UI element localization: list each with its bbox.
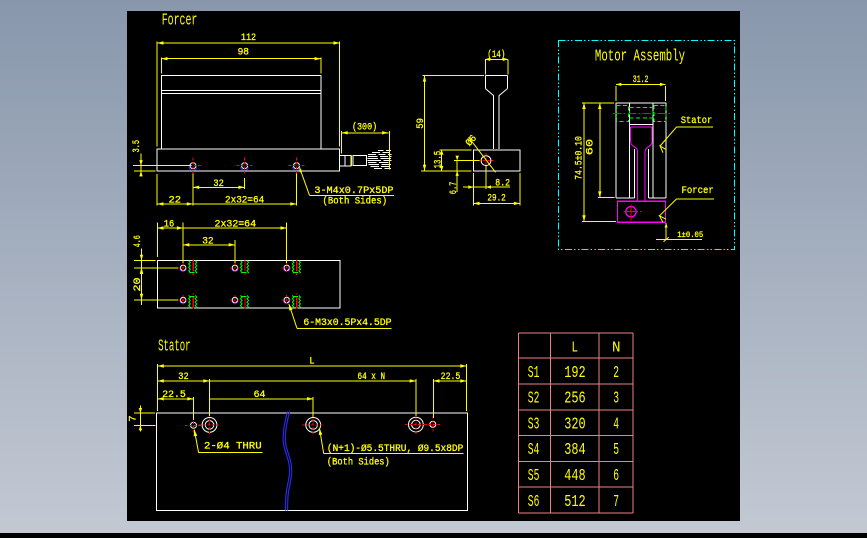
svg-text:29.2: 29.2 — [487, 193, 505, 204]
bottom view holes M3 grid — [180, 269, 186, 271]
svg-text:(N+1)-Ø5.5THRU, Ø9.5x8DP: (N+1)-Ø5.5THRU, Ø9.5x8DP — [327, 443, 463, 455]
svg-text:3.5: 3.5 — [132, 140, 143, 153]
stator plate outline — [157, 413, 468, 511]
svg-text:L: L — [572, 340, 579, 357]
break line blue — [283, 412, 290, 511]
svg-text:6-M3x0.5Px4.5DP: 6-M3x0.5Px4.5DP — [303, 318, 391, 329]
svg-text:112: 112 — [241, 33, 256, 44]
dim L — [158, 365, 467, 367]
motor assembly dashed border — [558, 40, 734, 249]
svg-text:32: 32 — [178, 372, 188, 383]
leader 6-M3x0.5Px4.5DP — [289, 304, 297, 329]
dim 2x32=64 bottom — [183, 227, 287, 229]
svg-text:S3: S3 — [528, 415, 540, 433]
hole counterbore 2 — [306, 418, 321, 433]
svg-text:6.7: 6.7 — [449, 182, 460, 195]
forcer base bar — [157, 149, 339, 171]
svg-text:64: 64 — [254, 390, 266, 401]
dim (300) cable length — [342, 132, 389, 134]
dim 4.6 — [141, 249, 143, 279]
forcer bottom view outline — [157, 260, 339, 308]
hole dia4 left — [191, 422, 197, 428]
svg-text:S5: S5 — [528, 467, 540, 485]
svg-text:74.5±0.10: 74.5±0.10 — [574, 136, 585, 180]
dim 32 — [193, 186, 245, 188]
svg-text:S4: S4 — [528, 441, 540, 459]
dim 8.2 — [463, 186, 510, 188]
svg-text:(14): (14) — [487, 49, 505, 61]
dim 13.5 — [441, 150, 443, 171]
dim 3.5 — [140, 154, 142, 177]
stator channel outline — [616, 103, 666, 198]
dim 22.5 right — [433, 380, 466, 382]
dim 60 — [599, 103, 601, 198]
svg-text:512: 512 — [564, 493, 585, 511]
hole counterbore 1 — [202, 418, 217, 433]
magnets green dashed — [617, 105, 629, 121]
dim 31.2 — [616, 83, 666, 85]
svg-text:L: L — [309, 357, 314, 368]
dim 64 — [210, 398, 314, 400]
dim 74.5+-0.10 — [583, 103, 585, 222]
svg-text:384: 384 — [564, 441, 585, 459]
size table — [518, 333, 520, 513]
svg-text:64 x N: 64 x N — [358, 372, 386, 383]
svg-text:Forcer: Forcer — [162, 12, 198, 31]
svg-text:Stator: Stator — [681, 116, 713, 127]
hole dia4 right — [430, 421, 436, 427]
dim 1+-0.05 gap — [665, 223, 667, 240]
dim 22.5 left — [158, 398, 194, 400]
svg-text:60: 60 — [586, 139, 597, 155]
svg-text:98: 98 — [238, 48, 249, 59]
svg-text:4: 4 — [613, 415, 619, 433]
svg-text:S6: S6 — [528, 493, 540, 511]
dim 7 — [139, 406, 141, 432]
dim 22 — [157, 203, 193, 205]
svg-text:2x32=64: 2x32=64 — [215, 219, 257, 230]
centerline red dash-dot — [613, 113, 670, 115]
hole counterbore 3 — [409, 417, 424, 432]
dim 29.2 — [473, 202, 520, 204]
svg-text:32: 32 — [202, 237, 213, 248]
dim 32 stator — [158, 380, 210, 382]
svg-text:2: 2 — [613, 364, 619, 382]
svg-text:6: 6 — [613, 467, 619, 485]
dim 2x32=64 — [193, 203, 297, 205]
dim 32 bottom — [183, 244, 235, 246]
svg-text:320: 320 — [564, 415, 585, 433]
side view head and stem — [486, 74, 508, 76]
forcer body block — [161, 75, 320, 149]
leader 2-dia4 THRU — [194, 430, 198, 453]
svg-text:59: 59 — [416, 118, 427, 129]
dim 20 — [141, 268, 143, 305]
svg-text:1±0.05: 1±0.05 — [677, 230, 703, 240]
svg-text:7: 7 — [129, 415, 140, 421]
drawing canvas — [127, 11, 740, 521]
svg-text:256: 256 — [564, 390, 585, 408]
svg-text:22.5: 22.5 — [441, 372, 461, 383]
svg-text:(Both Sides): (Both Sides) — [327, 457, 390, 469]
svg-text:Motor Assembly: Motor Assembly — [595, 48, 685, 67]
svg-text:22.5: 22.5 — [162, 390, 186, 401]
svg-text:22: 22 — [169, 195, 182, 206]
dim 16 — [157, 227, 183, 229]
svg-text:(300): (300) — [352, 122, 377, 134]
svg-text:(Both Sides): (Both Sides) — [323, 196, 388, 208]
svg-text:Stator: Stator — [158, 338, 191, 357]
forcer section magenta — [631, 126, 653, 128]
side view cable hole — [481, 156, 491, 166]
leader (N+1) holes — [320, 428, 324, 453]
dim 98 — [161, 58, 320, 60]
svg-text:2-Ø4 THRU: 2-Ø4 THRU — [204, 441, 262, 453]
svg-text:31.2: 31.2 — [633, 75, 649, 86]
dim 59 — [424, 75, 426, 170]
leader dia 6 — [469, 137, 496, 172]
side view base block — [473, 150, 520, 171]
svg-text:16: 16 — [164, 219, 174, 230]
svg-text:S1: S1 — [528, 364, 540, 382]
cable strands — [378, 150, 384, 152]
position symbol — [626, 207, 636, 217]
svg-text:448: 448 — [564, 467, 585, 485]
dim 6.7 — [456, 161, 458, 193]
dim (14) — [485, 58, 508, 60]
svg-text:8.2: 8.2 — [495, 179, 510, 190]
svg-text:S2: S2 — [528, 390, 540, 408]
svg-text:3: 3 — [613, 390, 619, 408]
leader 3-M4x0.7Px5DP — [300, 168, 310, 196]
dim 64 x N — [210, 380, 416, 382]
svg-text:N: N — [612, 339, 621, 356]
dim 112 — [157, 42, 340, 44]
svg-text:5: 5 — [613, 441, 619, 459]
svg-text:13.5: 13.5 — [433, 151, 444, 169]
svg-text:Forcer: Forcer — [682, 186, 714, 197]
forcer block top plate lines — [161, 90, 320, 92]
svg-text:4.6: 4.6 — [133, 235, 144, 247]
svg-text:32: 32 — [213, 179, 223, 190]
svg-text:2x32=64: 2x32=64 — [225, 195, 264, 206]
mounting holes M4 — [189, 167, 197, 170]
svg-text:20: 20 — [133, 278, 144, 292]
svg-text:192: 192 — [564, 364, 585, 382]
cable connector — [339, 155, 351, 166]
svg-text:3-M4x0.7Px5DP: 3-M4x0.7Px5DP — [314, 186, 393, 197]
svg-text:7: 7 — [613, 493, 619, 511]
